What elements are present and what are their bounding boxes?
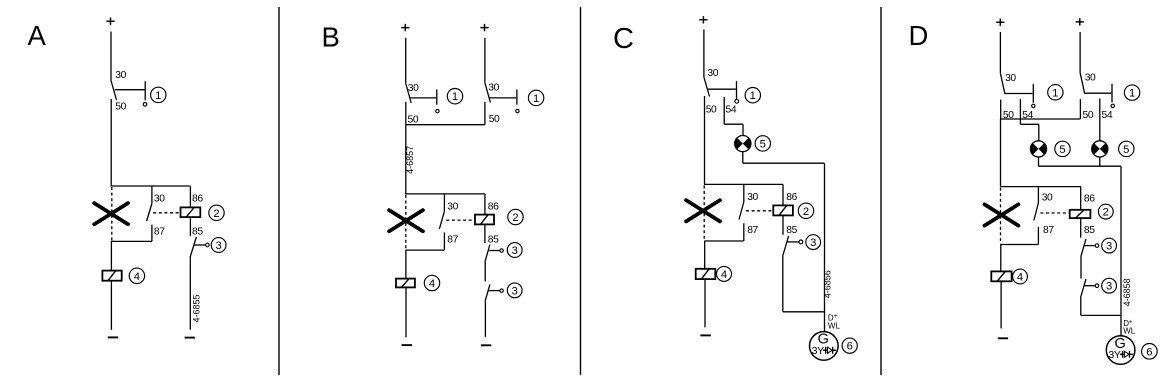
relay K1 A contact blade [147,204,152,222]
wire D: S2 term 50 down [1079,99,1081,119]
start contact point B left [436,109,439,112]
wire D: between contacts [1080,256,1082,279]
callout 3 (panel A) [211,238,226,253]
wire D: S4 contact tap [1084,285,1095,287]
callout 4 (panel B) [424,275,439,290]
start contact tick D right [1111,84,1113,103]
wire D: S2 term 54 to right lamp [1099,99,1101,141]
battery plus D left [996,19,1004,26]
svg-text:85: 85 [1084,225,1095,236]
svg-text:D: D [909,20,929,51]
svg-text:5: 5 [1123,144,1129,156]
svg-text:C: C [613,23,634,55]
svg-text:87: 87 [747,225,758,236]
switch S2 A blade [190,237,196,256]
svg-text:4: 4 [429,278,435,290]
lamp H2 D [1092,141,1108,157]
ground C left [700,334,710,336]
wire B: relay coil 85 down [484,224,486,243]
ground B right [481,344,491,346]
panel divider 1 [278,7,280,375]
relay K1 A coil [181,207,201,217]
callout 1 (panel C) [745,88,760,103]
wire D: S1 term 54 down [1019,99,1021,124]
svg-text:3: 3 [1106,241,1112,253]
start contact tick D left [1032,84,1034,103]
svg-text:85: 85 [192,227,203,238]
wire D: right battery to switch [1079,32,1081,73]
svg-text:3: 3 [215,240,221,252]
svg-text:1: 1 [1129,88,1135,100]
wire A: battery to switch term 30 [110,32,112,81]
callout 2 (panel D) [1098,204,1113,219]
start contact tick B right [516,90,518,105]
wire B: 87 to starter branch [405,249,444,251]
panel divider 3 [880,7,882,375]
solenoid L1 D [991,271,1011,281]
wire D: left lamp down [1038,157,1040,166]
callout 3 (panel B upper) [507,243,522,258]
svg-text:87: 87 [447,234,458,245]
callout 3 (panel D upper) [1102,238,1117,253]
svg-text:50: 50 [489,114,500,125]
wire B: starter branch down [405,250,407,279]
svg-text:30: 30 [1042,193,1053,204]
switch S3 D blade [1081,239,1086,256]
lamp H1 C [735,136,751,152]
svg-text:86: 86 [192,194,203,205]
start contact point C [735,99,739,103]
wire B: relay contact 30 drop [443,194,445,211]
solenoid L1 B [396,279,415,288]
wire C: relay coil 86 drop [782,184,784,205]
svg-text:85: 85 [488,234,499,245]
callout 1 (panel D left) [1048,85,1063,100]
wire A: 87 to starter branch [111,240,152,242]
svg-text:30: 30 [707,68,718,79]
wire A: solenoid to ground [110,281,112,330]
svg-text:+: + [1129,319,1133,326]
wire C: relay term 87 down [743,223,745,241]
wire A: term 50 down [110,99,112,186]
wire B: S4 to ground [484,302,486,337]
callout 1 (panel B left) [447,89,462,104]
battery plus B right [480,24,488,31]
svg-text:4: 4 [134,271,140,283]
battery plus D right [1076,18,1084,25]
svg-text:6: 6 [1146,346,1152,358]
callout 5 (panel D right) [1119,141,1134,156]
contact point S2 A [206,243,210,247]
svg-text:2: 2 [1103,207,1109,219]
ground A right [185,337,195,339]
wire A: relay term 87 down [151,225,153,242]
wire D: right lamp down [1099,157,1101,166]
callout 3 (panel B lower) [507,283,522,298]
wire C: lamp down [742,152,744,164]
start contact point B right [516,109,519,112]
svg-text:30: 30 [1005,73,1016,84]
relay K1 D actuator dashed link [1040,212,1069,214]
callout 2 (panel C) [798,203,813,218]
wire C: solenoid to ground [704,279,706,327]
svg-text:50: 50 [115,102,126,113]
starter motor X (B) [389,210,423,231]
wire C: relay coil 85 down [782,215,784,234]
wire C: 87 to starter branch [704,240,744,242]
callout 1 (panel A) [151,87,166,102]
switch S2 D blade [1080,73,1085,94]
svg-text:86: 86 [1084,194,1095,205]
wire D: S1 to start contact [1004,93,1032,95]
relay K1 C coil [773,205,793,215]
wire C: term 50 down [704,96,706,184]
svg-text:1: 1 [452,91,458,103]
wire D: 54 to left lamp [1038,124,1040,141]
relay K1 D coil [1070,210,1091,218]
start contact tick B left [436,90,438,105]
wire A: dashed through starter [111,187,113,241]
generator G1 C [810,332,839,361]
switch S1 D blade [1000,73,1005,94]
relay K1 B coil [475,215,494,225]
wire A: starter branch down [110,241,112,270]
svg-text:30: 30 [154,194,165,205]
switch S1 B blade [406,83,412,103]
switch S2 C blade [783,236,789,255]
callout 6 (panel C) [842,338,857,353]
callout 4 (panel D) [1013,269,1028,284]
wire C: 54 jog right [724,123,743,125]
svg-text:1: 1 [155,90,161,102]
svg-text:30: 30 [1085,73,1096,84]
wire D: join 50 terminals [1001,118,1081,120]
wire D: 54 left jog [1020,123,1038,125]
svg-text:5: 5 [760,138,766,150]
svg-text:+: + [834,313,838,320]
wire D: 87 to starter branch [1000,244,1038,246]
panel divider 2 [580,7,582,375]
wire B: main feed down [405,125,407,194]
callout 4 (panel C) [717,266,732,281]
relay K1 B contact blade [439,211,444,229]
relay K1 C actuator dashed link [746,210,773,212]
wire C: node to relay top [704,183,783,185]
wire D: dashed through starter [1000,188,1002,244]
svg-text:3: 3 [512,245,518,257]
svg-text:A: A [28,20,47,51]
relay K1 D contact blade [1034,203,1039,221]
ground D left [998,337,1008,339]
wire C: S2 to generator node [783,311,825,313]
wire D: main feed down [1000,119,1002,187]
switch S4 B blade [485,284,490,301]
wire C: right drop to generator node [824,163,826,331]
svg-text:30: 30 [747,192,758,203]
wire D: solenoid to ground [1000,281,1002,328]
wire D: relay coil 86 drop [1080,187,1082,210]
callout 6 (panel D) [1142,344,1158,360]
wire D: starter branch down [1000,245,1002,272]
wire D: relay coil 85 down [1080,218,1082,238]
switch S2 B blade [485,83,491,103]
callout 2 (panel A) [209,205,224,220]
wire C: relay contact 30 drop [743,184,745,202]
battery plus C [699,16,707,23]
svg-text:2: 2 [803,206,809,218]
wire C: S1 to start contact [708,88,736,90]
wire D: right drop to generator node [1120,166,1122,336]
wire C: term 54 down [723,97,725,124]
svg-text:5: 5 [1059,144,1065,156]
contact point S3 B [500,249,503,252]
svg-text:WL: WL [1123,327,1136,336]
svg-text:54: 54 [726,105,737,116]
switch S1 C blade [704,77,710,96]
callout 3 (panel C) [806,235,821,250]
wire D: lamps to right drop [1039,165,1122,167]
ground B left [402,344,412,346]
wire D: relay contact 30 drop [1037,187,1039,203]
svg-text:4-6856: 4-6856 [823,270,833,298]
start contact tick C [736,81,738,99]
wire B: S1 to start contact [410,97,437,99]
svg-text:4-6858: 4-6858 [1122,278,1132,306]
wire D: relay term 87 down [1037,227,1039,245]
svg-text:86: 86 [488,202,499,213]
svg-text:4-6855: 4-6855 [191,294,201,322]
svg-text:4: 4 [721,269,727,281]
wire A: switch to start contact [115,89,145,91]
svg-text:30: 30 [488,83,499,94]
callout 1 (panel D right) [1124,85,1139,100]
svg-text:3Y: 3Y [1108,349,1121,361]
wire D: node to relay top [1001,186,1081,188]
relay K1 B actuator dashed link [446,219,474,221]
wire B: relay coil 86 drop [484,194,486,215]
svg-text:4: 4 [1017,272,1023,284]
callout 5 (panel D left) [1055,141,1070,156]
switch S4 D blade [1081,279,1086,296]
svg-text:50: 50 [408,114,419,125]
battery plus B left [401,24,409,31]
start contact tick A [144,81,146,100]
wire C: S2 contact tap [787,241,799,243]
wire D: S4 to generator node [1081,314,1121,316]
start contact point A [143,103,147,107]
wire B: S2 to start contact [489,97,517,99]
svg-text:30: 30 [115,70,126,81]
wire A: relay contact 30 drop [151,186,153,204]
wire A: S2 contact tap [194,244,206,246]
callout 5 (panel C) [755,136,770,151]
svg-text:WL: WL [828,321,841,330]
svg-text:85: 85 [786,225,797,236]
svg-text:2: 2 [213,208,219,220]
svg-text:3: 3 [810,237,816,249]
wire B: between contacts [484,262,486,282]
wire D: S3 contact tap [1084,245,1095,247]
ground A left [108,336,118,338]
wire A: relay coil 86 drop [189,186,191,207]
wire C: battery to switch [703,30,705,78]
wire B: S4 contact tap [488,290,500,292]
wire B: solenoid to ground [405,287,407,337]
wire B: S2 term 50 down [484,102,486,125]
svg-text:87: 87 [1043,225,1054,236]
wire C: starter branch down [704,241,706,269]
svg-text:B: B [322,22,340,53]
wire C: lamp to right drop [743,162,825,164]
callout 3 (panel D lower) [1102,278,1117,293]
wire C: S2 down [782,255,784,312]
starter motor X (A) [94,203,128,224]
generator G1 D [1106,336,1135,365]
wire D: left battery to switch [999,32,1001,73]
callout 1 (panel B right) [528,90,543,105]
wire D: S4 down [1080,296,1082,315]
wire A: S2 to ground [189,256,191,330]
switch S1 A blade [111,81,117,101]
svg-text:87: 87 [154,227,165,238]
wire B: left battery to switch [405,38,407,83]
callout 4 (panel A) [129,268,144,283]
relay K1 A actuator dashed link [153,212,180,214]
svg-text:2: 2 [512,212,518,224]
svg-text:3Y: 3Y [812,345,825,357]
svg-text:30: 30 [447,202,458,213]
svg-text:1: 1 [1052,87,1058,99]
wire D: S2 to start contact [1084,92,1111,94]
svg-text:6: 6 [847,341,853,353]
svg-text:50: 50 [1083,110,1094,121]
wire B: S1 term 50 down [405,102,407,125]
svg-text:30: 30 [408,83,419,94]
switch S3 B blade [485,245,490,262]
svg-text:1: 1 [533,93,539,105]
wire C: 54 to lamp [742,124,744,136]
starter motor X (C) [686,200,720,221]
wire B: right battery to switch [484,38,486,83]
wire C: dashed through starter [703,185,705,240]
battery plus A [106,18,114,25]
svg-text:3: 3 [512,285,518,297]
wire A: relay coil 85 down [189,217,191,236]
wire B: relay term 87 down [443,232,445,250]
relay K1 C contact blade [739,202,744,220]
starter motor X (D) [985,204,1019,225]
callout 2 (panel B) [508,209,523,224]
solenoid L1 A [102,271,121,281]
svg-text:3: 3 [1106,281,1112,293]
contact point S4 D [1095,284,1099,288]
lamp H1 D [1030,141,1046,157]
solenoid L1 C [696,269,716,279]
contact point S2 C [799,240,803,244]
svg-text:4-6857: 4-6857 [405,146,415,174]
contact point S3 D [1095,244,1099,248]
svg-text:50: 50 [706,105,717,116]
contact point S4 B [500,289,503,292]
wire B: dashed through starter [405,195,407,249]
wire B: join 50 terminals [406,124,485,126]
start contact point D left [1032,104,1035,107]
wire A: node to relay top [111,185,190,187]
svg-text:86: 86 [786,192,797,203]
wire B: S3 contact tap [488,250,500,252]
svg-text:1: 1 [750,90,756,102]
wire B: node to relay top [405,193,485,195]
wire D: S1 term 50 down [1000,100,1002,119]
svg-text:54: 54 [1102,110,1113,121]
start contact point D right [1111,104,1114,107]
